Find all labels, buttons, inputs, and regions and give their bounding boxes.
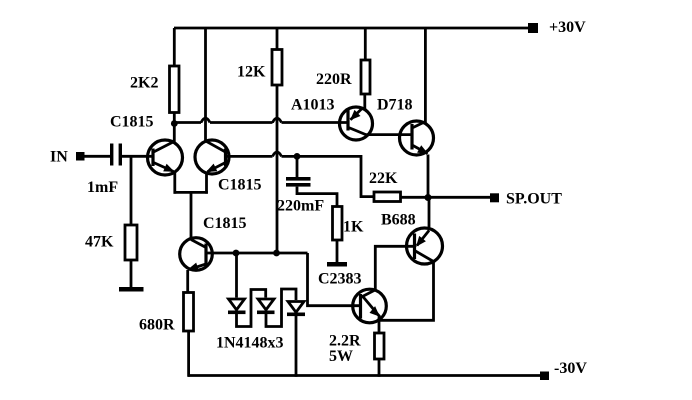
svg-text:1K: 1K bbox=[343, 219, 364, 236]
resistor 2K2 bbox=[170, 66, 180, 113]
wire Q1 collector up to node A bbox=[173, 124, 176, 142]
wire Q2 base feedback line (with hop) bbox=[226, 152, 375, 197]
node +30V terminal bbox=[528, 23, 538, 33]
wire rail drop to Q2 collector bbox=[204, 28, 207, 141]
node -30V terminal bbox=[540, 372, 549, 381]
svg-text:B688: B688 bbox=[381, 212, 416, 229]
wire D718 emitter to output node bbox=[427, 155, 430, 199]
wire Q2 emitter down bbox=[205, 172, 208, 194]
wire top +30V rail bbox=[174, 27, 529, 30]
wire rail drop to D718 collector bbox=[424, 28, 427, 123]
resistor 22K bbox=[374, 192, 401, 202]
wire rail drop to 2K2 bbox=[173, 28, 176, 66]
node feedback junction dot bbox=[294, 153, 301, 160]
svg-text:12K: 12K bbox=[237, 64, 266, 81]
resistor 47K bbox=[125, 225, 137, 260]
resistor 12K bbox=[272, 50, 282, 86]
node output junction dot bbox=[425, 194, 432, 201]
wire 680R to -30V rail bbox=[187, 331, 190, 377]
transistor B688 bbox=[407, 228, 443, 264]
svg-text:2K2: 2K2 bbox=[130, 75, 158, 92]
svg-text:220R: 220R bbox=[316, 71, 352, 88]
transistor A1013 bbox=[340, 107, 373, 140]
wire 220R to A1013 emitter bbox=[363, 94, 366, 110]
transistor Q2 C1815 bbox=[195, 140, 229, 174]
wire 1K to ground bar bbox=[336, 240, 339, 262]
wire Q3 emitter to 680R bbox=[186, 270, 189, 293]
wire bottom -30V rail bbox=[188, 374, 541, 377]
resistor 220R bbox=[361, 60, 370, 94]
transistor Q3 C1815 bbox=[180, 238, 213, 271]
svg-text:22K: 22K bbox=[369, 170, 398, 187]
svg-text:D718: D718 bbox=[377, 97, 413, 114]
svg-text:IN: IN bbox=[50, 149, 68, 166]
transistor Q1 C1815 bbox=[148, 140, 183, 175]
wire B688 collector down and left bbox=[378, 262, 434, 321]
transistor C2383 bbox=[353, 289, 387, 323]
diode D1 1N4148 bbox=[228, 253, 266, 327]
node IN terminal bbox=[76, 152, 85, 161]
node bias dot 2 bbox=[273, 250, 280, 257]
resistor 1K bbox=[333, 207, 343, 241]
wire IN to capacitor bbox=[84, 155, 110, 158]
svg-text:C1815: C1815 bbox=[218, 177, 262, 194]
resistor 680R bbox=[184, 293, 194, 332]
wire C2383 emitter junction to 2.2R bbox=[378, 321, 381, 333]
wire C2383 collector to B688 base bbox=[375, 246, 414, 290]
svg-text:C1815: C1815 bbox=[110, 114, 154, 131]
svg-text:47K: 47K bbox=[85, 234, 114, 251]
wire 2.2R to -30V rail bbox=[378, 359, 381, 377]
ground bar bbox=[119, 287, 144, 292]
wire Q3 base bias line bbox=[206, 253, 362, 306]
wire 47K to ground bbox=[130, 260, 133, 287]
svg-text:SP.OUT: SP.OUT bbox=[506, 191, 562, 208]
wire 2K2 to node A bbox=[173, 113, 176, 123]
wire emitters joined (tail) bbox=[174, 192, 208, 238]
svg-text:220mF: 220mF bbox=[277, 198, 324, 215]
wire Q1 emitter down bbox=[173, 172, 176, 194]
svg-text:680R: 680R bbox=[139, 317, 175, 334]
svg-text:-30V: -30V bbox=[554, 360, 587, 377]
svg-text:1N4148x3: 1N4148x3 bbox=[216, 335, 284, 352]
node bias dot 1 bbox=[233, 250, 240, 257]
wire 22K to output node and SP.OUT bbox=[401, 196, 491, 199]
svg-text:A1013: A1013 bbox=[291, 97, 335, 114]
diode D3 1N4148 bbox=[287, 302, 305, 377]
wire A1013 collector to D718 base bbox=[365, 133, 412, 136]
node A junction dot bbox=[171, 120, 178, 127]
wire 12K down to bias node bbox=[276, 85, 279, 253]
wire rail drop to 12K bbox=[276, 28, 279, 50]
svg-text:+30V: +30V bbox=[549, 19, 586, 36]
svg-text:2.2R: 2.2R bbox=[329, 333, 361, 350]
svg-text:C1815: C1815 bbox=[203, 215, 247, 232]
wire junction drop to 47K bbox=[130, 156, 133, 225]
diode D2 1N4148 bbox=[257, 289, 296, 327]
wire B688 emitter up to output bbox=[428, 198, 431, 231]
ground bar 1K bbox=[327, 262, 347, 267]
wire node A to A1013 base (with hops) bbox=[174, 118, 348, 122]
wire capacitor to Q1 base bbox=[122, 155, 153, 158]
capacitor 220mF bbox=[286, 156, 337, 206]
svg-text:C2383: C2383 bbox=[318, 271, 362, 288]
node SP.OUT terminal bbox=[490, 193, 499, 202]
svg-text:5W: 5W bbox=[329, 348, 353, 365]
transistor D718 bbox=[400, 121, 434, 155]
svg-text:1mF: 1mF bbox=[87, 179, 118, 196]
capacitor 1mF bbox=[110, 144, 122, 166]
resistor 2.2R 5W bbox=[375, 333, 385, 359]
wire rail drop to 220R bbox=[364, 28, 367, 60]
